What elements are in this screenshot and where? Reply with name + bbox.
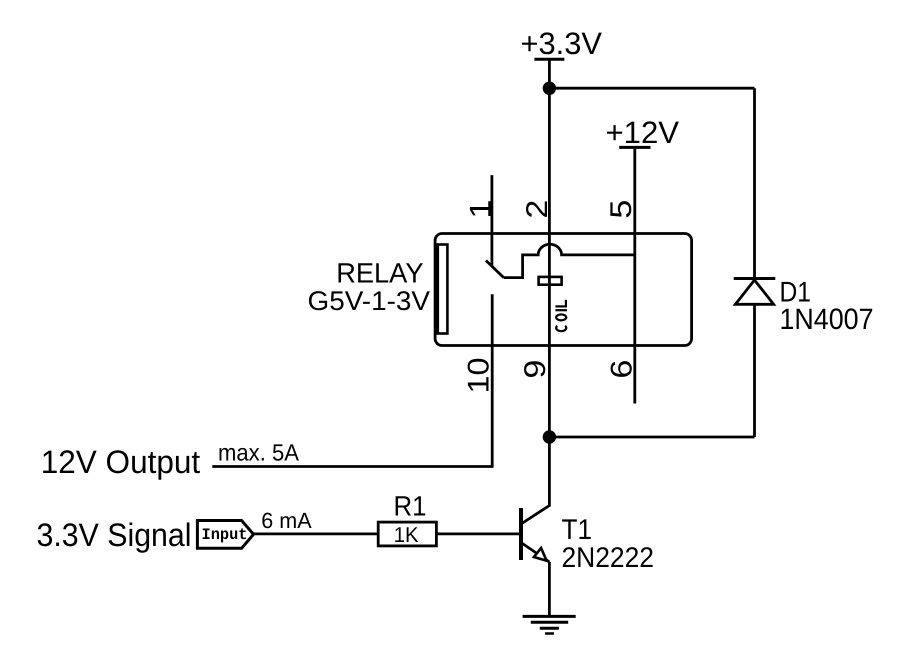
svg-text:1: 1 — [464, 200, 497, 219]
relay K1 body — [435, 234, 691, 346]
svg-text:6 mA: 6 mA — [261, 508, 312, 533]
svg-text:+3.3V: +3.3V — [521, 26, 603, 61]
wire top horizontal to diode — [549, 87, 754, 90]
power symbol +3.3V bar — [534, 58, 564, 61]
node junction dot top — [543, 82, 556, 95]
transistor T1 emitter arrow — [534, 548, 547, 561]
svg-text:1N4007: 1N4007 — [780, 303, 874, 336]
transistor T1 collector stroke — [521, 506, 549, 525]
svg-text:Input: Input — [202, 526, 248, 544]
ground symbol — [523, 616, 576, 633]
wire diode branch down (top) — [753, 88, 756, 278]
wire bottom horizontal back to collector node — [549, 436, 754, 439]
relay coil core bar — [539, 277, 562, 285]
wire resistor to base — [436, 533, 519, 536]
svg-text:G5V-1-3V: G5V-1-3V — [308, 286, 431, 316]
svg-text:5: 5 — [605, 200, 638, 219]
wire input to resistor — [254, 533, 379, 536]
wire emitter to ground — [548, 562, 551, 616]
wire relay pin 1 — [490, 175, 493, 266]
svg-text:2N2222: 2N2222 — [562, 542, 655, 574]
wire +12V to relay pin 5 through pin 6 — [633, 147, 636, 403]
svg-text:10: 10 — [463, 358, 496, 394]
power symbol +12V bar — [619, 146, 650, 149]
label COIL (drawn as paths, reading bottom-up: C,O,I,L) — [555, 300, 567, 331]
diode D1 cathode bar — [734, 277, 776, 280]
svg-text:12V Output: 12V Output — [41, 444, 201, 480]
resistor R1 body — [378, 522, 436, 546]
diode D1 triangle — [735, 280, 773, 304]
svg-text:max. 5A: max. 5A — [218, 440, 299, 466]
transistor T1 emitter stroke — [521, 543, 549, 563]
svg-text:R1: R1 — [394, 491, 427, 522]
node junction dot bottom — [543, 430, 556, 443]
net label Input tag — [197, 521, 253, 549]
svg-text:1K: 1K — [394, 523, 419, 547]
svg-text:3.3V Signal: 3.3V Signal — [37, 517, 192, 553]
wire diode branch down (bottom) — [753, 304, 756, 437]
wire 12V output horizontal — [212, 465, 493, 468]
transistor T1 base bar — [519, 508, 523, 560]
wire +3.3V rail down to transistor collector node — [548, 59, 551, 506]
svg-text:9: 9 — [519, 360, 552, 379]
svg-text:RELAY: RELAY — [336, 257, 424, 288]
svg-text:+12V: +12V — [606, 115, 680, 150]
svg-text:2: 2 — [521, 200, 554, 219]
relay pin 10 contact stub and wire down to output corner — [491, 294, 494, 466]
svg-text:6: 6 — [606, 360, 639, 379]
relay switch blade — [486, 261, 504, 278]
relay contact path with hop over coil wire — [504, 244, 635, 277]
relay inner frame bar — [438, 245, 448, 334]
